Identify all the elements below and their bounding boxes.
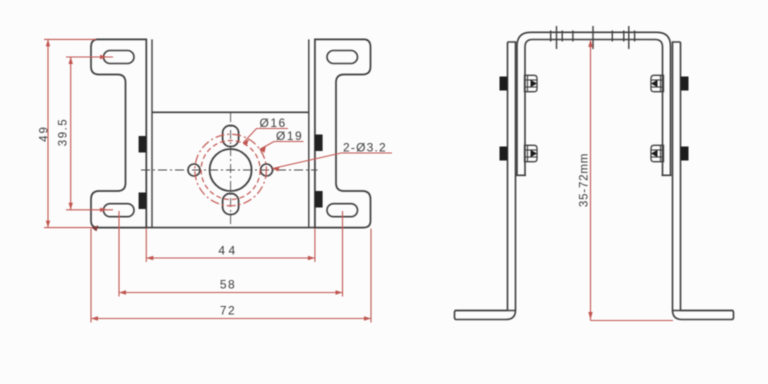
svg-text:Ø19: Ø19 — [276, 129, 303, 143]
arrow dim 44 right — [308, 256, 315, 260]
arrow at bottom slot — [100, 208, 107, 212]
hole left — [188, 164, 200, 176]
channel wall bottom cap right — [662, 174, 672, 176]
leader line d19 — [260, 142, 304, 150]
right L bracket — [673, 42, 734, 320]
slot top-left ear — [104, 51, 135, 64]
slot bottom-right ear — [327, 204, 358, 217]
bolt circle d16 red dashed — [201, 141, 260, 200]
leader arrow d19 — [259, 146, 267, 153]
svg-text:72: 72 — [220, 304, 236, 318]
leader line d16 — [243, 129, 288, 144]
dim 39.5 ext bottom — [66, 209, 113, 211]
corner arrow at ear bottom-left — [92, 225, 99, 231]
slot hole top — [223, 126, 239, 147]
slot top-right ear — [327, 51, 358, 64]
svg-text:35-72mm: 35-72mm — [579, 153, 591, 207]
clamp tab upper-left — [139, 136, 147, 153]
top screw tick marks — [556, 26, 558, 49]
slot hole bottom — [223, 194, 239, 215]
body top edge — [152, 111, 309, 113]
body bottom edge — [146, 227, 315, 229]
dim 44 line — [146, 257, 315, 259]
left L bracket — [455, 42, 516, 320]
svg-text:2-Ø3.2: 2-Ø3.2 — [343, 141, 387, 155]
clamp tab lower-left — [139, 193, 147, 210]
channel wall bottom cap left — [516, 174, 526, 176]
right wall bend line inner — [308, 39, 310, 227]
bolt left upper — [500, 75, 538, 91]
arrow 35-72mm bottom — [588, 312, 592, 320]
bolt right lower — [651, 145, 689, 161]
leader d16 — [243, 129, 392, 169]
left ear plate outline — [91, 39, 146, 227]
channel inner contour — [525, 40, 663, 176]
arrow at top slot — [100, 55, 107, 59]
svg-text:Ø16: Ø16 — [260, 116, 287, 130]
arrow dim 58 right — [336, 290, 343, 294]
arrow dim 72 left — [91, 316, 98, 320]
arrow dim 49 bottom — [46, 221, 50, 228]
dim 49 ext top — [44, 38, 96, 40]
dim 35-72mm line — [590, 41, 592, 321]
dim 72 ext right — [370, 229, 372, 323]
svg-text:44: 44 — [218, 244, 238, 258]
leader line 2-d3.2 — [273, 153, 393, 169]
dim 44 ext right — [314, 229, 316, 262]
hole right 2-d3.2 — [261, 164, 273, 176]
svg-text:49: 49 — [39, 125, 51, 142]
dim 39.5 line — [70, 57, 72, 210]
dim 58 ext left — [118, 211, 120, 297]
arrow dim 39.5 bottom — [69, 203, 73, 210]
leader arrow 2-d3.2 — [272, 167, 279, 172]
svg-text:58: 58 — [220, 278, 236, 292]
arrow dim 58 left — [119, 290, 126, 294]
arrow dim 44 left — [146, 256, 153, 260]
arrow dim 49 top — [46, 39, 50, 46]
dim 72 ext left — [90, 229, 92, 323]
clamp tab lower-right — [315, 191, 323, 208]
dim 49 line — [47, 39, 49, 227]
leader arrow d16 — [243, 139, 250, 146]
dim 58 ext right — [342, 211, 344, 297]
left wall bend line inner — [151, 39, 153, 227]
bolt right upper — [651, 75, 689, 91]
bolt left lower — [500, 145, 538, 161]
dim 72 line — [91, 318, 371, 320]
dim 49 ext bottom — [44, 227, 95, 229]
top tick marks — [551, 26, 635, 49]
slot bottom-left ear — [104, 204, 135, 217]
left L foot top line fix — [455, 310, 734, 312]
dim 35-72mm ext bottom — [591, 320, 674, 322]
right ear plate outline — [315, 39, 371, 227]
channel outer contour — [517, 32, 671, 175]
center bore circle — [210, 149, 252, 191]
dim 58 line — [119, 292, 343, 294]
centerline horizontal — [141, 169, 318, 171]
clamp tab upper-right — [315, 135, 323, 152]
arrow dim 39.5 top — [69, 57, 73, 64]
centerline vertical — [230, 113, 232, 225]
dim 39.5 ext top — [66, 56, 113, 58]
dim 44 ext left — [145, 229, 147, 262]
arrow dim 72 right — [364, 316, 371, 320]
svg-text:39.5: 39.5 — [58, 118, 70, 146]
arrow 35-72mm top — [588, 40, 592, 48]
bolt circle d19 red dash-dot — [195, 134, 267, 206]
dim 35-72mm — [591, 41, 674, 321]
arrowheads red left view — [46, 39, 371, 320]
